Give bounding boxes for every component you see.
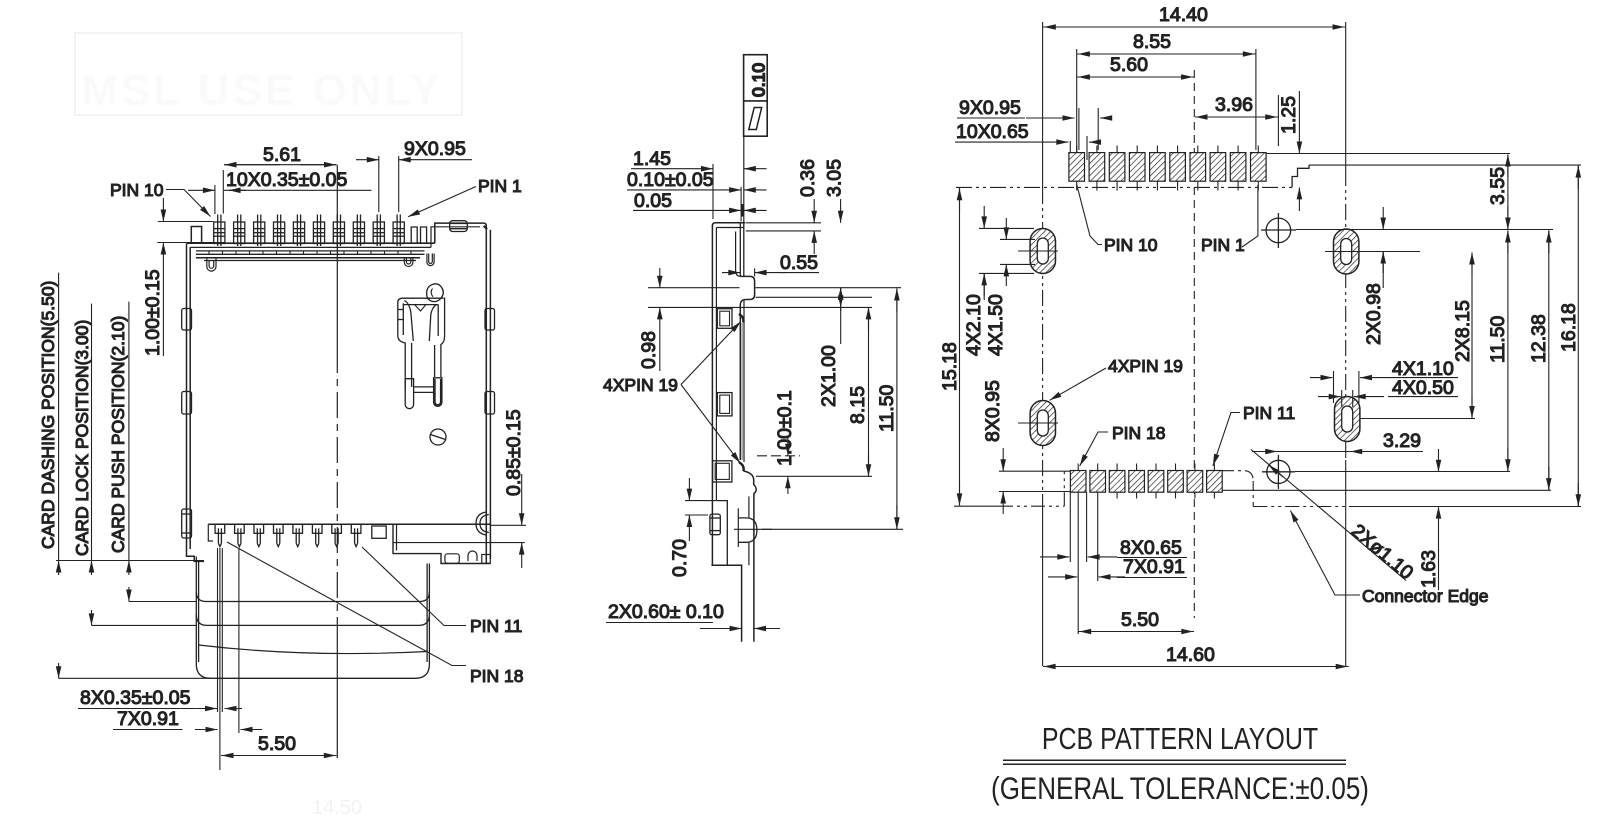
- label PIN 11 pcb: [1213, 403, 1295, 466]
- pin19 nose bottom: [739, 462, 744, 471]
- dim 1.00±0.1: [756, 390, 872, 494]
- dim 0.55: [722, 252, 819, 274]
- slot ext line A: [648, 287, 901, 289]
- dim 12.38: [1528, 231, 1550, 491]
- dim 8X0.65: [1040, 492, 1187, 562]
- svg-text:PIN 11: PIN 11: [470, 616, 522, 636]
- watermark ghost box: [75, 33, 462, 115]
- solder tab: [710, 514, 720, 535]
- svg-text:CARD LOCK POSITION(3.00): CARD LOCK POSITION(3.00): [72, 320, 92, 556]
- dim 3.29: [1252, 430, 1423, 452]
- dim 2X0.98: [1363, 207, 1385, 345]
- top-left notch tab: [191, 227, 201, 244]
- oval slot left bottom: [1030, 401, 1055, 446]
- dim 9X0.95: [356, 138, 472, 212]
- oval slot left top: [1030, 229, 1055, 274]
- dim 0.36: [746, 159, 821, 254]
- pin19 tab 1: [717, 309, 732, 329]
- leader 2X dia 1.10: [1251, 450, 1418, 585]
- pad top extension line: [1266, 153, 1510, 155]
- label PIN 18: [227, 542, 524, 686]
- svg-text:CARD DASHING POSITION(5.50): CARD DASHING POSITION(5.50): [38, 281, 58, 549]
- card stop bump: [740, 276, 754, 304]
- right extension line: [1345, 22, 1347, 666]
- svg-text:1.00±0.15: 1.00±0.15: [142, 269, 164, 356]
- phantom outline top edge: [956, 186, 1292, 188]
- label 4XPIN 19 pcb: [1050, 356, 1183, 400]
- dim 8X0.95 left: [982, 380, 1004, 514]
- right wall bump 2: [485, 392, 495, 415]
- screw circle: [430, 429, 446, 445]
- rail second hook: [427, 254, 434, 266]
- pin19 tab 2: [717, 393, 732, 416]
- left wall bump 1: [182, 309, 192, 331]
- dim 0.10±0.05: [627, 169, 767, 221]
- shell top line: [1309, 164, 1581, 166]
- svg-text:2X8.15: 2X8.15: [1452, 300, 1474, 362]
- dim 14.40: [1043, 4, 1345, 27]
- svg-text:0.98: 0.98: [638, 331, 660, 369]
- card position reference line: [56, 560, 204, 562]
- svg-text:MSL USE ONLY: MSL USE ONLY: [81, 66, 442, 115]
- svg-text:0.05: 0.05: [634, 190, 672, 212]
- svg-text:PCB PATTERN LAYOUT: PCB PATTERN LAYOUT: [1042, 722, 1318, 756]
- dim 5.50 left view: [221, 733, 337, 756]
- dim 8.15: [847, 307, 869, 476]
- hole bottom: [1262, 455, 1295, 489]
- svg-text:15.18: 15.18: [939, 342, 961, 391]
- oval slot right top: [1334, 229, 1359, 274]
- dim 2X8.15: [1452, 253, 1474, 419]
- svg-text:4XPIN 19: 4XPIN 19: [603, 375, 678, 395]
- oval center cross lines: [1018, 251, 1475, 423]
- svg-text:5.61: 5.61: [263, 144, 301, 166]
- label PIN 11: [362, 547, 522, 636]
- label 4XPIN 19: [603, 322, 741, 464]
- svg-text:9X0.95: 9X0.95: [404, 138, 466, 160]
- svg-text:8X0.95: 8X0.95: [982, 380, 1004, 442]
- dim 3.05: [824, 159, 846, 311]
- svg-text:0.70: 0.70: [669, 539, 691, 577]
- hole center extension line: [1296, 229, 1553, 231]
- board peg: [738, 518, 757, 542]
- dim card lock 3.00: [92, 561, 197, 626]
- card edges: [196, 557, 429, 665]
- middle view dimensions: [603, 148, 903, 629]
- label CARD DASHING POSITION(5.50): [38, 273, 59, 561]
- dim 10X0.65: [955, 121, 1100, 143]
- card dashing outline: [196, 664, 429, 678]
- dim 5.61: [223, 144, 336, 214]
- side profile top surface: [712, 223, 745, 226]
- notch rect: [372, 526, 386, 538]
- svg-text:PIN 18: PIN 18: [470, 666, 524, 686]
- dim 5.50 pcb: [1079, 609, 1195, 632]
- label Connector Edge: [1290, 511, 1488, 606]
- dim 11.50: [762, 289, 903, 530]
- svg-text:PIN 1: PIN 1: [478, 176, 522, 196]
- spring arm gray: [741, 323, 743, 460]
- side profile pocket: [736, 223, 744, 277]
- svg-text:0.85±0.15: 0.85±0.15: [503, 409, 525, 496]
- label PIN 10: [110, 180, 211, 217]
- svg-text:7X0.91: 7X0.91: [117, 708, 179, 730]
- dim 4X0.50: [1318, 377, 1458, 407]
- dim 1.63: [1418, 449, 1440, 590]
- bottom pad bottom extension right: [1222, 489, 1551, 491]
- label PIN 18 pcb: [1080, 423, 1166, 466]
- body bottom edge: [208, 523, 490, 525]
- label CARD PUSH POSITION(2.10): [108, 302, 129, 561]
- svg-text:12.38: 12.38: [1528, 314, 1550, 363]
- dim 0.70: [669, 478, 716, 577]
- svg-text:PIN 18: PIN 18: [1112, 423, 1166, 443]
- flatness feature control frame: [744, 55, 769, 137]
- svg-text:1.25: 1.25: [1278, 96, 1300, 134]
- top pin row 1-10: [214, 215, 405, 247]
- datum leader: [743, 136, 745, 223]
- dim 16.18: [1558, 166, 1580, 507]
- label PIN 1 pcb: [1201, 185, 1258, 255]
- dim 3.96: [1195, 94, 1278, 146]
- dim 2X1.00: [818, 288, 841, 407]
- svg-text:PIN 11: PIN 11: [1243, 403, 1295, 423]
- svg-text:14.40: 14.40: [1159, 4, 1208, 26]
- label PIN 1: [408, 176, 522, 217]
- card lock outline: [196, 615, 429, 626]
- bump ext tick: [754, 268, 756, 276]
- dim card dashing 5.50: [59, 561, 210, 679]
- svg-text:5.50: 5.50: [1121, 609, 1159, 631]
- phantom outline bottom-right: [1222, 471, 1581, 507]
- dim 11.50 pcb: [1487, 231, 1509, 472]
- rail ladder ticks: [209, 251, 411, 254]
- right view dimensions: [939, 4, 1580, 667]
- card surface curve: [199, 645, 428, 653]
- title: PCB PATTERN LAYOUT: [1003, 722, 1346, 765]
- svg-text:7X0.91: 7X0.91: [1123, 556, 1185, 578]
- svg-text:5.50: 5.50: [258, 733, 296, 755]
- shell step outline: [1292, 165, 1309, 187]
- svg-text:1.45: 1.45: [633, 148, 671, 170]
- label PIN 10 pcb: [1077, 185, 1158, 256]
- pin19 nose top: [739, 314, 744, 323]
- dim 1.00±0.15: [142, 198, 225, 356]
- lower right profile: [743, 471, 756, 642]
- svg-text:14.60: 14.60: [1166, 644, 1215, 666]
- latch on platform: [450, 221, 468, 232]
- dim 4X1.10: [1310, 358, 1458, 403]
- oval slot right bottom: [1335, 397, 1360, 442]
- svg-text:11.50: 11.50: [876, 384, 898, 432]
- svg-text:14.50: 14.50: [312, 797, 362, 818]
- svg-text:0.36: 0.36: [797, 159, 819, 197]
- bottom right section: [393, 524, 525, 563]
- left extension centerline: [1042, 22, 1044, 666]
- dim 8X0.35±0.05: [78, 548, 242, 770]
- top pads row: [1069, 153, 1266, 182]
- bottom pads row: [1070, 471, 1222, 493]
- svg-text:10X0.35±0.05: 10X0.35±0.05: [226, 169, 347, 191]
- svg-text:(GENERAL TOLERANCE:±0.05): (GENERAL TOLERANCE:±0.05): [991, 772, 1369, 807]
- bottom left pin shelf: [208, 524, 213, 541]
- svg-text:0.10±0.05: 0.10±0.05: [627, 169, 714, 191]
- dim 8.55: [1077, 31, 1256, 152]
- dim 14.60: [1043, 644, 1349, 667]
- dim card push 2.10: [129, 561, 196, 602]
- svg-text:4X0.50: 4X0.50: [1392, 377, 1454, 399]
- dim 7X0.91: [1048, 499, 1187, 635]
- spring contact: [398, 284, 445, 409]
- svg-text:8.15: 8.15: [847, 386, 869, 424]
- svg-text:PIN 10: PIN 10: [1104, 235, 1158, 255]
- svg-text:1.63: 1.63: [1418, 550, 1440, 588]
- rail left hook: [207, 258, 216, 271]
- svg-text:8.55: 8.55: [1133, 31, 1171, 53]
- left wall clip: [182, 509, 192, 538]
- stub tabs right of pin1: [411, 227, 426, 243]
- dim 0.85±0.15: [491, 409, 527, 568]
- svg-text:0.10: 0.10: [749, 63, 769, 97]
- svg-text:Connector Edge: Connector Edge: [1362, 586, 1488, 606]
- rail right hook: [404, 258, 413, 267]
- svg-text:2X0.60± 0.10: 2X0.60± 0.10: [608, 601, 724, 623]
- svg-text:0.55: 0.55: [780, 252, 818, 274]
- left view dimensions: [38, 138, 526, 770]
- dashed pin1 centerline: [1193, 70, 1195, 618]
- left wall bump 2: [182, 392, 192, 415]
- svg-text:11.50: 11.50: [1487, 315, 1509, 363]
- phantom outline bottom-left: [954, 471, 1064, 506]
- bottom pad center ticks: [1078, 464, 1214, 499]
- dim 5.60: [1077, 54, 1194, 77]
- dim 7X0.91: [113, 548, 262, 733]
- bottom pad top extension right: [1295, 471, 1510, 473]
- svg-text:10X0.65: 10X0.65: [956, 121, 1029, 143]
- bottom pin row 11-18: [215, 524, 361, 546]
- dim 4X2.10: [963, 206, 1034, 356]
- svg-text:CARD PUSH POSITION(2.10): CARD PUSH POSITION(2.10): [108, 316, 128, 553]
- hole top: [1261, 213, 1296, 248]
- peg center line: [734, 528, 772, 530]
- dim 2X0.60±0.10: [606, 601, 780, 629]
- dim 1.25: [1278, 91, 1300, 211]
- svg-text:5.60: 5.60: [1110, 54, 1148, 76]
- svg-text:3.55: 3.55: [1487, 167, 1509, 205]
- svg-text:2X0.98: 2X0.98: [1363, 283, 1385, 345]
- card push outline: [196, 592, 429, 602]
- svg-text:PIN 1: PIN 1: [1201, 235, 1245, 255]
- slot ext line C: [648, 306, 872, 308]
- svg-text:4X1.50: 4X1.50: [985, 294, 1007, 356]
- foot inner lines: [738, 497, 749, 566]
- side profile left wall: [712, 225, 716, 565]
- svg-text:3.96: 3.96: [1215, 94, 1253, 116]
- slot ext line B: [756, 296, 872, 298]
- dim 15.18: [939, 188, 961, 506]
- top pad center ticks: [1077, 146, 1259, 191]
- svg-text:4XPIN 19: 4XPIN 19: [1108, 356, 1183, 376]
- svg-text:3.05: 3.05: [824, 159, 846, 197]
- foot bottom: [711, 565, 741, 642]
- dim 1.45: [631, 148, 767, 219]
- contact edge below bump: [740, 300, 744, 463]
- bottom pad extensions left: [999, 471, 1070, 491]
- svg-text:9X0.95: 9X0.95: [959, 97, 1021, 119]
- svg-text:2X1.00: 2X1.00: [818, 345, 840, 407]
- svg-text:16.18: 16.18: [1558, 303, 1580, 352]
- dim 0.05: [633, 190, 767, 217]
- svg-text:PIN 10: PIN 10: [110, 180, 164, 200]
- dim 3.55: [1487, 155, 1509, 230]
- svg-text:1.00±0.1: 1.00±0.1: [774, 390, 796, 466]
- label CARD LOCK POSITION(3.00): [72, 304, 92, 561]
- dim 0.98: [638, 268, 660, 371]
- pin19 tab 3: [713, 461, 732, 482]
- svg-text:4X2.10: 4X2.10: [963, 294, 985, 356]
- dim 10X0.35±0.05: [188, 169, 372, 214]
- dim 4X1.50: [985, 218, 1035, 356]
- svg-text:3.29: 3.29: [1383, 430, 1421, 452]
- dim 9X0.95 top: [957, 97, 1112, 160]
- svg-text:8X0.35±0.05: 8X0.35±0.05: [80, 687, 191, 709]
- center line: [336, 165, 338, 758]
- top rail: [187, 243, 435, 260]
- body left wall: [187, 244, 205, 562]
- right wall clip: [476, 512, 489, 535]
- right wall: [484, 223, 491, 563]
- right wall bump 1: [485, 309, 495, 331]
- top right step platform: [435, 223, 484, 243]
- foot surface: [716, 501, 727, 566]
